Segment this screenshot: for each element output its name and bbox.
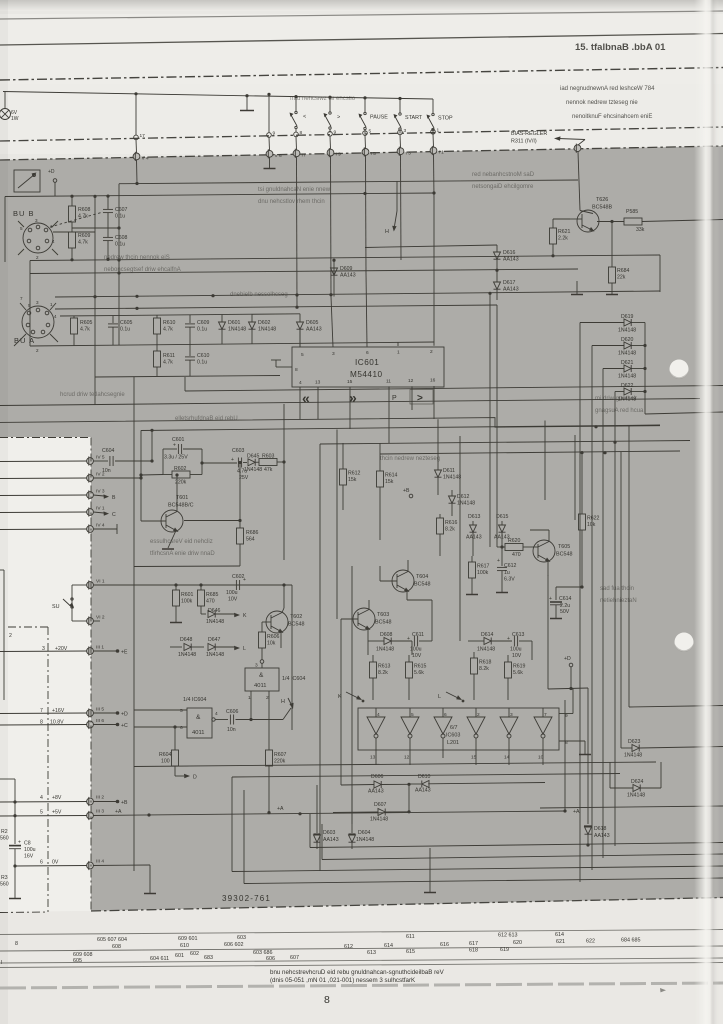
- pin IV1 arrow C: [0, 506, 116, 519]
- pin IV3 arrow B: [0, 489, 116, 502]
- diode D602 1N4148: [249, 314, 277, 344]
- node +B mid: [403, 488, 413, 498]
- svg-text:5: 5: [28, 303, 31, 308]
- svg-text:617: 617: [469, 941, 478, 947]
- wire left vertical x30: [29, 306, 31, 346]
- svg-text:614: 614: [555, 932, 564, 938]
- wire IC601 pin4 down: [299, 387, 301, 420]
- svg-text:D602: D602: [258, 320, 271, 326]
- diode D611 1N4148: [435, 419, 462, 495]
- svg-text:+A: +A: [573, 809, 580, 815]
- connector BU A: [14, 296, 58, 353]
- wire T601 collector row: [184, 519, 242, 522]
- svg-text:R621: R621: [558, 229, 571, 235]
- wire BU B frame verticals: [5, 195, 97, 310]
- node bushing 1: [431, 127, 440, 134]
- svg-text:T605: T605: [558, 544, 570, 550]
- wire IC601 pin2: [433, 199, 435, 346]
- wire H arrow low2: [283, 708, 291, 720]
- svg-text:C604: C604: [102, 448, 115, 454]
- svg-text:4.7k: 4.7k: [78, 214, 88, 220]
- svg-text:C612: C612: [504, 563, 517, 569]
- ground mid right: [571, 281, 583, 295]
- svg-text:619: 619: [500, 947, 509, 953]
- wire row y429: [141, 425, 660, 431]
- svg-text:+B: +B: [121, 800, 128, 806]
- svg-text:iad negnudnewnA red leshceW 78: iad negnudnewnA red leshceW 784: [560, 86, 655, 92]
- resistor R603 47k: [259, 454, 286, 474]
- svg-text:6: 6: [180, 725, 183, 731]
- svg-text:621: 621: [556, 939, 565, 945]
- wire vertical x621: [620, 452, 622, 748]
- svg-text:470: 470: [512, 552, 521, 558]
- svg-text:8: 8: [295, 367, 298, 373]
- wire row y183: [119, 180, 578, 184]
- wire row y315 short: [60, 314, 300, 316]
- wire T605 emitter row: [547, 575, 549, 689]
- svg-text:elletsrhufdnaB eid rebU: elletsrhufdnaB eid rebU: [175, 416, 238, 422]
- svg-text:1N4148: 1N4148: [443, 475, 461, 481]
- svg-text:15k: 15k: [385, 479, 394, 485]
- capacitor C611 100u 10V: [407, 632, 432, 659]
- potentiometer P585 33k: [610, 209, 723, 233]
- svg-text:606: 606: [266, 956, 275, 962]
- svg-text:16: 16: [430, 378, 436, 384]
- svg-text:601: 601: [175, 953, 184, 959]
- switch L link: [438, 692, 464, 702]
- frame dash-dot inner left: [0, 627, 48, 913]
- svg-text:BIAS-REGLER: BIAS-REGLER: [511, 131, 547, 137]
- capacitor C609 0.1u: [185, 315, 210, 345]
- svg-text:8: 8: [300, 130, 303, 136]
- small arrow mark bottom right: [660, 988, 666, 992]
- resistor R2 560 (off-page, label): [0, 779, 17, 844]
- capacitor C612 1u 6.3V: [496, 547, 517, 593]
- svg-text:AA143: AA143: [503, 257, 519, 263]
- svg-text:4.7k: 4.7k: [80, 327, 90, 333]
- resistor R619 5.6k: [505, 655, 526, 700]
- svg-text:+: +: [243, 577, 246, 583]
- svg-text:R311 (IV/I): R311 (IV/I): [511, 139, 537, 145]
- svg-text:L: L: [438, 694, 441, 700]
- svg-text:D606: D606: [371, 774, 384, 780]
- resistor R604 100: [159, 727, 179, 776]
- svg-text:1/4 IC604: 1/4 IC604: [282, 676, 305, 682]
- svg-text:100k: 100k: [477, 570, 489, 576]
- wire IC601 pin3: [331, 297, 333, 348]
- svg-text:1N4148: 1N4148: [627, 793, 645, 799]
- switch START: [394, 97, 423, 134]
- frame dash-dot cutout vertical: [0, 438, 91, 912]
- diode D610 AA143: [409, 774, 545, 794]
- label BIAS-REGLER R311: [511, 131, 585, 145]
- pin VI1: [87, 579, 292, 590]
- svg-text:3.3u / 25V: 3.3u / 25V: [164, 455, 188, 461]
- svg-text:D614: D614: [481, 632, 494, 638]
- svg-text:D645: D645: [247, 454, 260, 460]
- svg-text:11: 11: [386, 379, 391, 385]
- wire row y345: [30, 342, 434, 346]
- transistor T605 BC548: [533, 530, 572, 576]
- svg-text:R608: R608: [78, 207, 91, 213]
- svg-text:10V: 10V: [228, 597, 238, 603]
- svg-text:R615: R615: [414, 664, 427, 670]
- svg-text:D604: D604: [358, 830, 371, 836]
- svg-text:1N4148: 1N4148: [370, 817, 388, 823]
- white cut-out lower-left: [0, 437, 91, 912]
- inverter 3: [434, 708, 452, 758]
- wire row y390: [185, 386, 723, 392]
- svg-text:AA143: AA143: [503, 287, 519, 293]
- IC601 M54410: [292, 347, 444, 387]
- diode D615 AA143: [494, 514, 510, 549]
- diode D606 AA143: [341, 774, 411, 795]
- svg-text:620: 620: [513, 940, 522, 946]
- svg-text:0V: 0V: [52, 860, 59, 866]
- svg-text:0.1u: 0.1u: [115, 214, 125, 220]
- svg-text:R606: R606: [267, 634, 280, 640]
- svg-text:15. tfalbnaB .bbA 01: 15. tfalbnaB .bbA 01: [575, 42, 666, 53]
- svg-text:R2: R2: [1, 829, 8, 835]
- svg-text:D607: D607: [374, 802, 387, 808]
- diode D624 1N4148: [610, 762, 661, 799]
- svg-text:D615: D615: [496, 514, 509, 520]
- svg-text:1N4148: 1N4148: [477, 647, 495, 653]
- node bushing 19: [267, 93, 276, 138]
- wire BU A stub: [29, 261, 31, 307]
- svg-text:C606: C606: [226, 709, 239, 715]
- svg-text:4: 4: [299, 380, 302, 386]
- svg-text:IV 3: IV 3: [96, 489, 105, 495]
- hole punch lower (overlay): [675, 633, 694, 652]
- wire vertical x185: [184, 377, 186, 391]
- svg-text:5: 5: [40, 810, 43, 816]
- wire vertical x629: [629, 426, 723, 707]
- node bushing I1: [430, 134, 444, 199]
- svg-text:5: 5: [301, 352, 304, 358]
- svg-text:+A: +A: [115, 809, 122, 815]
- resistor R613 8.2k: [370, 655, 391, 700]
- node +D right: [564, 656, 573, 690]
- svg-text:BC548B: BC548B: [592, 205, 612, 211]
- svg-text:III 6: III 6: [96, 718, 104, 724]
- svg-text:614: 614: [384, 943, 393, 949]
- svg-text:R610: R610: [163, 320, 176, 326]
- svg-text:606 602: 606 602: [224, 942, 244, 948]
- svg-text:609 601: 609 601: [178, 936, 198, 942]
- svg-text:I 9: I 9: [336, 152, 342, 158]
- resistor R606 10k: [259, 622, 280, 660]
- svg-text:3: 3: [255, 663, 258, 669]
- svg-text:+C: +C: [121, 723, 128, 729]
- svg-text:D608: D608: [380, 632, 393, 638]
- wire vertical x575 mid: [574, 435, 576, 520]
- wire row y376: [95, 376, 280, 378]
- svg-text:III 2: III 2: [96, 795, 104, 801]
- svg-text:602: 602: [190, 951, 199, 957]
- meter symbol: [14, 170, 40, 192]
- svg-text:604 611: 604 611: [150, 956, 169, 962]
- diode D614 1N4148: [468, 632, 512, 653]
- svg-text:1N4148: 1N4148: [206, 619, 224, 625]
- svg-text:III 3: III 3: [96, 809, 104, 815]
- svg-text:SU: SU: [52, 604, 60, 610]
- svg-text:613: 613: [367, 950, 376, 956]
- svg-text:2: 2: [9, 633, 12, 639]
- diode ladder D622 1N4148: [615, 383, 645, 403]
- svg-text:10k: 10k: [587, 522, 596, 528]
- svg-text:R618: R618: [479, 660, 492, 666]
- svg-text:603: 603: [237, 935, 246, 941]
- svg-text:+D: +D: [48, 169, 55, 175]
- svg-text:612 613: 612 613: [498, 933, 518, 939]
- wire IC601 pin6: [366, 273, 367, 347]
- diode D607 1N4148: [333, 784, 411, 822]
- svg-text:IC603: IC603: [446, 733, 460, 739]
- svg-text:39302-761: 39302-761: [222, 894, 271, 903]
- node bushing V6 with ground: [264, 137, 283, 168]
- svg-text:607: 607: [290, 955, 299, 961]
- node bus junction: [134, 92, 137, 95]
- svg-text:R622: R622: [587, 516, 600, 522]
- wire vertical x532: [531, 641, 533, 660]
- svg-text:14: 14: [504, 755, 510, 761]
- wire H arrow low: [281, 698, 294, 709]
- node bushing 8: [294, 130, 303, 137]
- svg-text:6: 6: [40, 860, 43, 866]
- svg-text:1N4148: 1N4148: [206, 652, 224, 658]
- svg-text:D648: D648: [180, 637, 193, 643]
- svg-text:+: +: [231, 457, 234, 463]
- svg-text:V 6: V 6: [275, 153, 283, 159]
- svg-text:6/7: 6/7: [450, 725, 458, 731]
- wire +B row: [93, 800, 128, 806]
- svg-text:3: 3: [35, 218, 38, 223]
- node bushing bias: [574, 140, 585, 211]
- wire IC601 pin15 down: [349, 387, 351, 429]
- wire row y308: [55, 305, 497, 309]
- svg-text:AA143: AA143: [340, 273, 356, 279]
- svg-text:C608: C608: [115, 235, 128, 241]
- capacitor C605 0.1u: [108, 316, 133, 346]
- lamp 6V 1W: [0, 92, 19, 122]
- resistor R609 4.7k: [69, 232, 91, 261]
- wire IC601 pin16 down: [433, 386, 435, 419]
- svg-text:R619: R619: [513, 664, 526, 670]
- capacitor C607 0.1u: [103, 195, 128, 227]
- svg-text:4.7k: 4.7k: [163, 327, 173, 333]
- svg-text:1: 1: [50, 302, 53, 307]
- wire row y765: [134, 762, 656, 767]
- svg-text:D618: D618: [594, 826, 607, 832]
- wire ladder right bus: [643, 323, 723, 415]
- resistor R616 8.2k: [437, 514, 458, 556]
- svg-text:684 685: 684 685: [621, 938, 641, 944]
- svg-text:C603: C603: [232, 448, 245, 454]
- svg-text:100u: 100u: [24, 847, 36, 853]
- svg-text:IV 5: IV 5: [96, 455, 105, 461]
- wire x152 up: [150, 429, 153, 463]
- svg-text:AA143: AA143: [415, 788, 431, 794]
- svg-text:D613: D613: [468, 514, 481, 520]
- svg-text:I: I: [1, 960, 3, 966]
- svg-text:D610: D610: [418, 774, 431, 780]
- svg-text:+: +: [497, 558, 500, 564]
- svg-text:BU B: BU B: [13, 209, 35, 218]
- capacitor C614 2.2u 50V: [549, 587, 582, 619]
- wire vertical x412 low: [411, 641, 413, 655]
- resistor R611 4.7k: [154, 345, 176, 376]
- svg-text:H: H: [281, 699, 285, 705]
- diode D613 AA143: [466, 514, 482, 556]
- wire top supply bus: [3, 92, 433, 100]
- wire row y247: [365, 245, 497, 248]
- svg-text:C610: C610: [197, 353, 210, 359]
- svg-text:615: 615: [406, 949, 415, 955]
- svg-text:AA143: AA143: [466, 535, 482, 541]
- svg-text:I 3: I 3: [406, 150, 412, 156]
- svg-text:15: 15: [471, 755, 477, 761]
- svg-text:D611: D611: [443, 468, 455, 474]
- svg-text:R609: R609: [78, 233, 91, 239]
- wire IC601 pin5: [299, 329, 301, 347]
- svg-text:6.3V: 6.3V: [504, 577, 515, 583]
- svg-text:5.6k: 5.6k: [414, 670, 424, 676]
- node bushing II: [293, 137, 305, 309]
- svg-text:START: START: [405, 115, 423, 121]
- resistor R602 220k: [139, 449, 202, 486]
- svg-text:1W: 1W: [11, 116, 19, 122]
- svg-text:616: 616: [440, 942, 449, 948]
- svg-text:4: 4: [54, 314, 57, 319]
- wire IC601 pin1: [397, 342, 399, 346]
- wire IC601 pin12 down: [411, 386, 413, 410]
- svg-text:I 1: I 1: [439, 150, 445, 156]
- svg-text:AA143: AA143: [594, 833, 610, 839]
- svg-text:BC548: BC548: [375, 620, 391, 626]
- svg-text:0.1u: 0.1u: [115, 242, 125, 248]
- capacitor C613 100u 10V: [507, 632, 532, 659]
- svg-text:«: «: [302, 390, 310, 406]
- wire IC601 pin11 down: [388, 386, 390, 443]
- svg-text:hcrud driw tetlahcsegnie: hcrud driw tetlahcsegnie: [60, 392, 125, 398]
- svg-text:P585: P585: [626, 209, 638, 215]
- resistor R612 15k: [340, 443, 361, 510]
- svg-text:R684: R684: [617, 268, 630, 274]
- wire row y443: [320, 441, 690, 445]
- svg-text:>: >: [337, 115, 340, 121]
- pin IV2: [0, 472, 143, 483]
- svg-text:VI 1: VI 1: [96, 579, 105, 585]
- svg-text:6: 6: [366, 350, 369, 356]
- wire row y260: [30, 255, 660, 261]
- svg-text:BU A: BU A: [14, 336, 35, 345]
- resistor R622 10k: [579, 451, 600, 587]
- wire vertical x497 low: [496, 305, 498, 547]
- inverter 2: [401, 708, 419, 765]
- svg-text:I I: I I: [302, 152, 306, 158]
- resistor R607 220k: [266, 693, 287, 814]
- svg-text:III 4: III 4: [96, 859, 104, 865]
- resistor R617 100k: [466, 556, 490, 595]
- wire row y296: [55, 291, 660, 297]
- wire T-bar ground mid bottom: [424, 848, 436, 893]
- diode D605 AA143: [297, 314, 322, 348]
- capacitor C602 100u 10V: [226, 574, 246, 603]
- svg-text:C614: C614: [559, 596, 572, 602]
- svg-text:0.1u: 0.1u: [197, 360, 207, 366]
- capacitor C603 4.7u 25V: [231, 448, 249, 481]
- svg-text:D623: D623: [628, 739, 641, 745]
- svg-text:4011: 4011: [192, 730, 204, 736]
- svg-text:15k: 15k: [348, 477, 357, 483]
- wire mech dashed link: [50, 212, 103, 227]
- diode D623 1N4148: [621, 739, 723, 759]
- wire C601 out right: [200, 461, 237, 464]
- svg-text:V 4: V 4: [142, 156, 150, 162]
- pin IV5: [0, 455, 105, 466]
- node +D top: [48, 169, 57, 197]
- capacitor C608 0.1u: [103, 226, 128, 261]
- svg-text:+: +: [407, 636, 410, 642]
- resistor R686 564: [237, 528, 259, 566]
- svg-text:100: 100: [161, 759, 170, 765]
- svg-text:R604: R604: [159, 752, 172, 758]
- diode ladder D620 1N4148: [592, 337, 645, 357]
- svg-text:B: B: [112, 495, 116, 501]
- svg-text:560: 560: [0, 836, 9, 842]
- svg-text:100u: 100u: [226, 590, 238, 596]
- node bushing I5: [362, 135, 376, 273]
- svg-text:5: 5: [180, 708, 183, 714]
- svg-text:IV 1: IV 1: [96, 506, 105, 512]
- svg-text:1N4148: 1N4148: [228, 327, 246, 333]
- svg-text:>: >: [417, 393, 423, 404]
- svg-text:1: 1: [397, 350, 400, 356]
- label H arrow: [385, 181, 397, 235]
- svg-text:564: 564: [246, 537, 255, 543]
- capacitor C610 0.1u: [185, 345, 210, 377]
- svg-text:dnu nehcstlov rhem thcin: dnu nehcstlov rhem thcin: [258, 199, 325, 205]
- svg-text:P: P: [392, 395, 397, 402]
- svg-text:+8V: +8V: [52, 795, 62, 801]
- wire long vertical x341 low: [340, 619, 342, 785]
- svg-text:1N4148: 1N4148: [178, 652, 196, 658]
- svg-text:5.6k: 5.6k: [513, 670, 523, 676]
- diode ladder D619 1N4148: [580, 314, 645, 334]
- svg-text:R616: R616: [445, 520, 458, 526]
- bottom band lines: [0, 930, 723, 935]
- svg-text:R613: R613: [378, 664, 391, 670]
- svg-text:470: 470: [206, 599, 215, 605]
- svg-text:8.2k: 8.2k: [378, 670, 388, 676]
- svg-text:thcin nedrew nezteseg: thcin nedrew nezteseg: [380, 456, 440, 462]
- wire IC601 pin8 stub: [271, 360, 292, 367]
- svg-text:BC548: BC548: [288, 622, 304, 628]
- svg-text:R617: R617: [477, 564, 490, 570]
- wire long vertical x320: [319, 444, 321, 871]
- svg-text:4.7k: 4.7k: [78, 240, 88, 246]
- wire row y566: [134, 377, 240, 871]
- svg-text:605 607 604: 605 607 604: [97, 937, 127, 943]
- svg-text:BC548: BC548: [414, 582, 430, 588]
- wire vertical x549: [530, 529, 549, 531]
- diode D618 AA143: [584, 688, 610, 847]
- wire vertical x284: [283, 404, 285, 560]
- svg-text:622: 622: [586, 939, 595, 945]
- wire long vertical x292: [291, 585, 293, 730]
- svg-text:IC601: IC601: [355, 358, 379, 367]
